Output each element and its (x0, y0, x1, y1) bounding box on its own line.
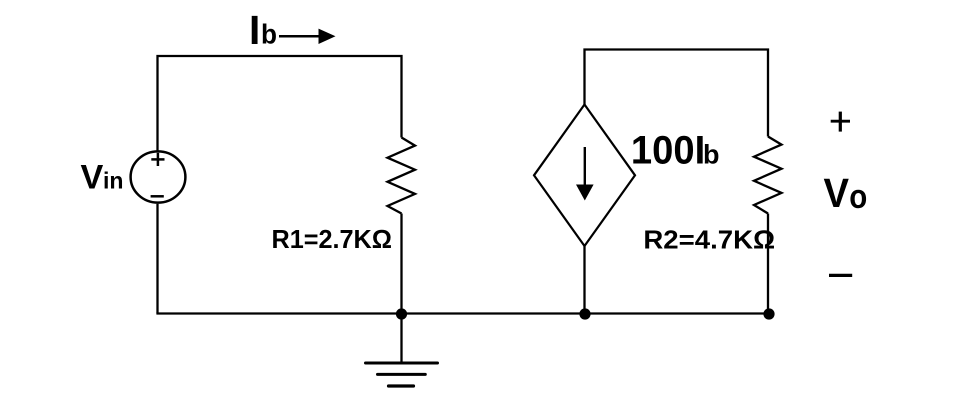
svg-text:R2=4.7KΩ: R2=4.7KΩ (643, 224, 775, 254)
svg-text:b: b (261, 19, 277, 50)
svg-text:in: in (103, 168, 124, 194)
svg-text:100I: 100I (631, 128, 705, 172)
svg-text:I: I (249, 7, 260, 53)
svg-text:V: V (824, 170, 850, 216)
svg-text:b: b (703, 140, 720, 170)
svg-text:o: o (849, 178, 867, 216)
svg-text:R1=2.7KΩ: R1=2.7KΩ (272, 224, 393, 254)
svg-text:V: V (81, 159, 104, 197)
